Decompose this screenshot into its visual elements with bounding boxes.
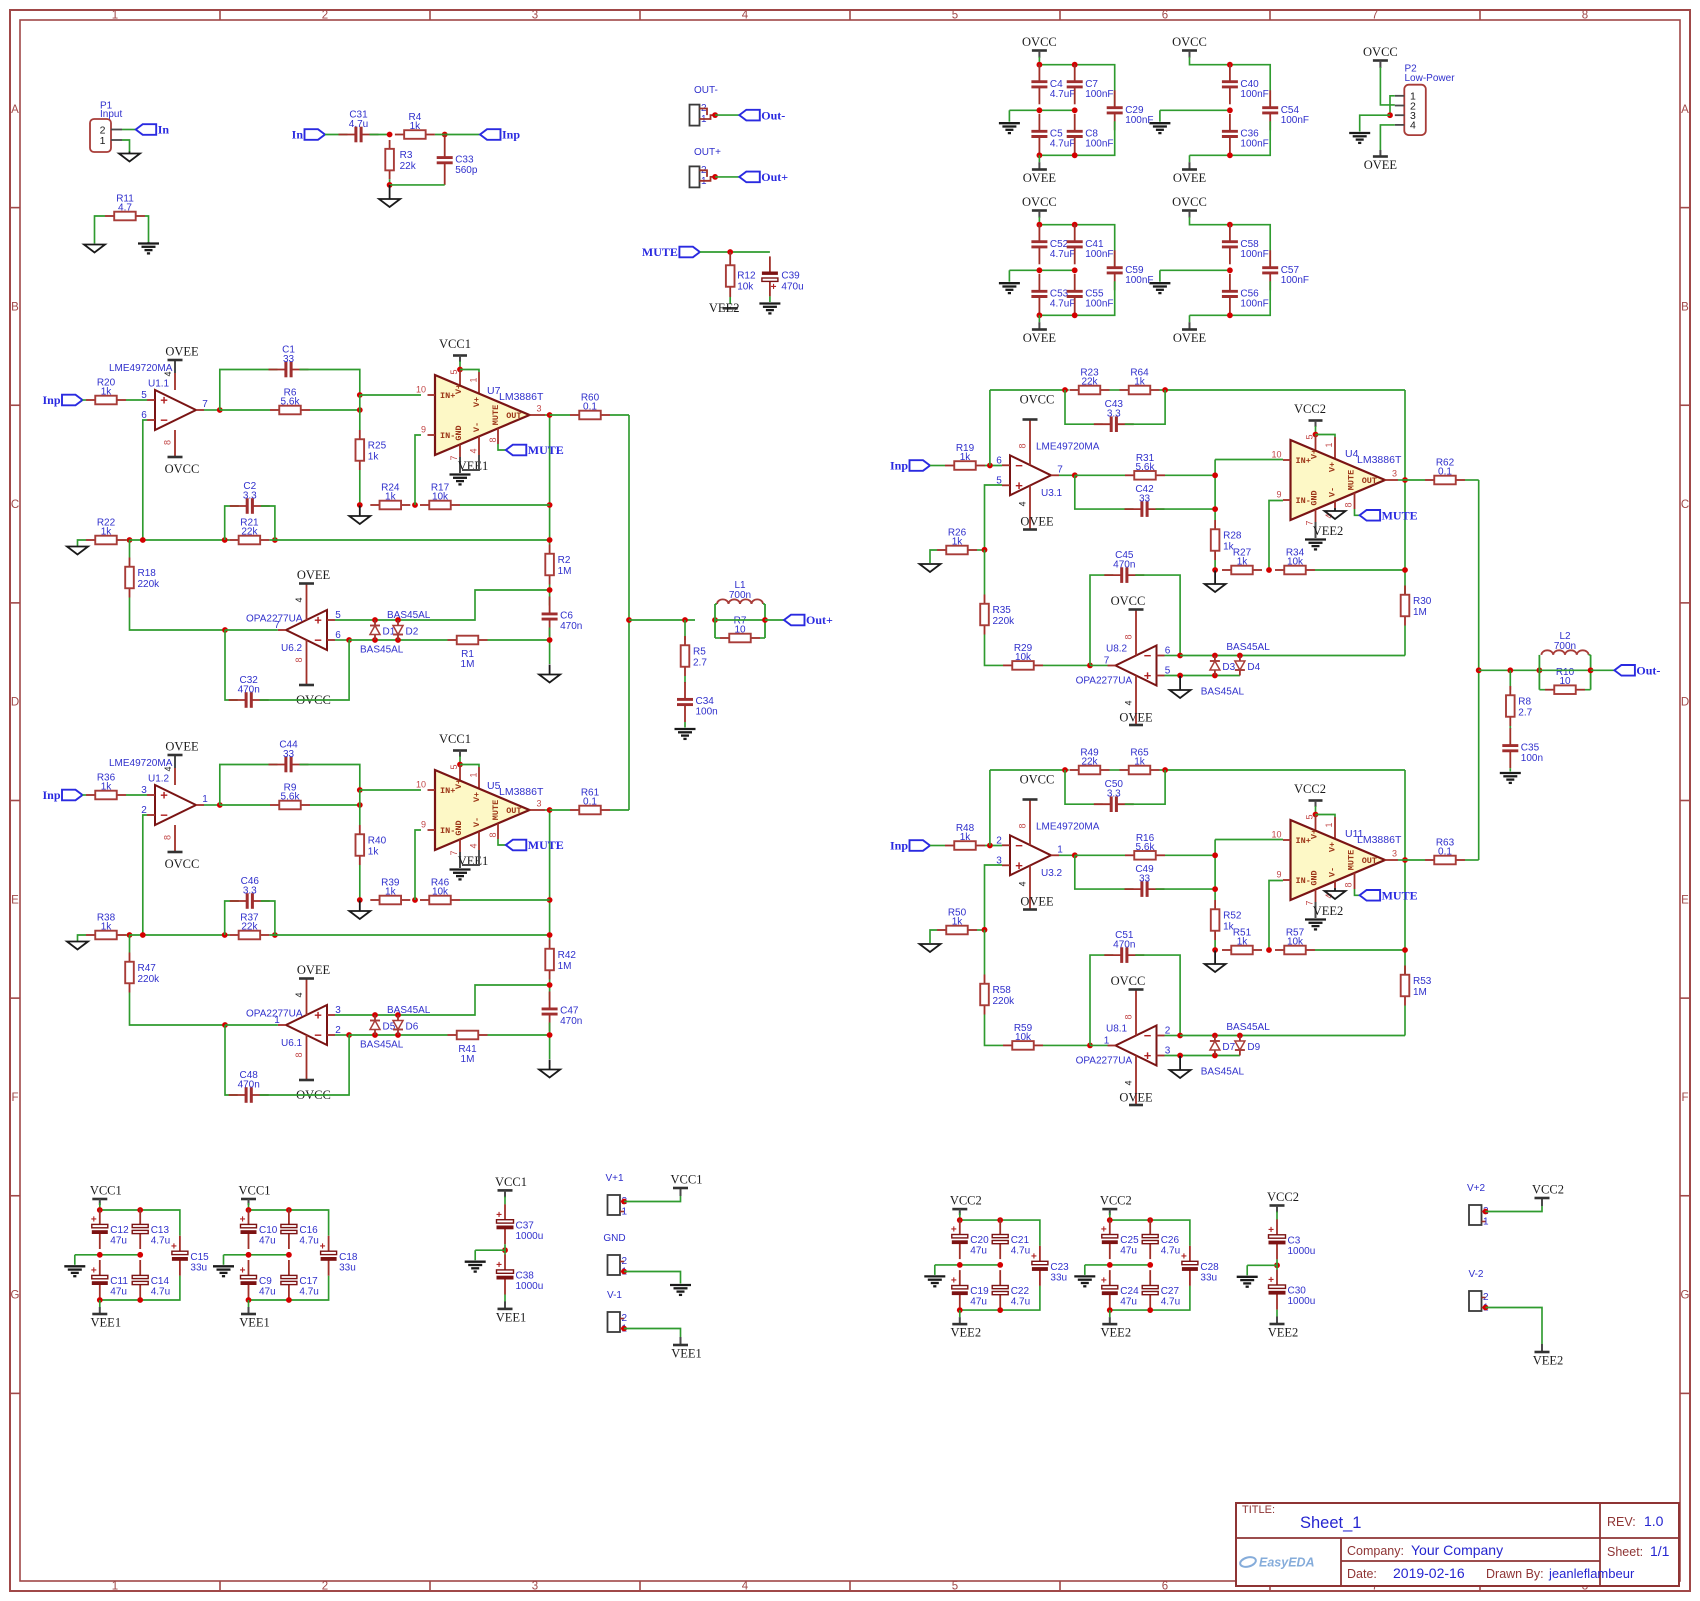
wire <box>1585 689 1591 691</box>
wire stem to C37 <box>504 1196 506 1204</box>
svg-text:OVCC: OVCC <box>165 462 200 476</box>
wire mid to earth <box>475 1249 505 1251</box>
svg-text:5: 5 <box>952 10 958 22</box>
wire C45 down <box>1135 575 1180 655</box>
svg-text:C19: C19 <box>970 1286 989 1297</box>
capacitor C40 <box>1222 64 1269 104</box>
capacitor C37 <box>496 1204 543 1244</box>
wire <box>474 1250 476 1260</box>
node VCC1/V+ <box>457 367 463 373</box>
wire V+2 to VCC2 <box>1486 1205 1543 1212</box>
wire servo + row <box>335 1014 460 1016</box>
svg-text:1k: 1k <box>385 887 397 898</box>
node bus/C2 left <box>222 537 228 543</box>
svg-text:BAS45AL: BAS45AL <box>1201 1067 1245 1078</box>
wire bank bottom rail <box>1190 281 1271 315</box>
power stem <box>1315 801 1317 808</box>
svg-text:10k: 10k <box>432 492 449 503</box>
capacitor C38 <box>496 1255 543 1295</box>
port Inp (U3.1) <box>890 459 930 473</box>
connector V-1 <box>607 1290 628 1335</box>
wire pin1 to VCC2 <box>1316 815 1336 818</box>
capacitor C26 <box>1142 1219 1180 1259</box>
svg-text:OVCC: OVCC <box>1022 195 1057 209</box>
power stem <box>1189 162 1191 169</box>
node mid mid <box>137 1252 143 1258</box>
svg-text:10k: 10k <box>1015 652 1032 663</box>
wire to C44 <box>220 765 278 806</box>
resistor R27 <box>1222 548 1262 575</box>
wire mid to earth <box>1084 1265 1086 1275</box>
resistor R57 <box>1275 928 1315 955</box>
svg-text:R5: R5 <box>693 647 706 658</box>
svg-text:2: 2 <box>322 1581 328 1593</box>
op-amp U3.2 <box>996 835 1063 879</box>
node mid left <box>246 1252 252 1258</box>
wire LM IN- down <box>1269 881 1283 951</box>
svg-text:Out+: Out+ <box>761 170 788 184</box>
svg-text:22k: 22k <box>400 161 417 172</box>
wire out to R9 <box>220 804 270 806</box>
capacitor C39 <box>762 256 804 296</box>
power flag VCC2 (bank) <box>1100 1194 1132 1210</box>
pin 4 elbow <box>462 850 479 865</box>
svg-text:OVEE: OVEE <box>165 740 199 754</box>
wire out <box>1398 859 1405 861</box>
resistor R29 <box>1003 643 1043 670</box>
power flag OVCC (U3.1) <box>1023 418 1038 421</box>
resistor R62 <box>1425 458 1465 485</box>
svg-text:V-: V- <box>1328 487 1338 497</box>
wire servo - stub <box>1165 655 1181 657</box>
svg-text:F: F <box>11 1092 18 1104</box>
svg-text:220k: 220k <box>138 974 161 985</box>
node C43 left <box>1062 387 1068 393</box>
svg-text:R58: R58 <box>993 985 1012 996</box>
svg-text:3.3: 3.3 <box>1107 789 1121 800</box>
wire R9 to node <box>310 804 360 806</box>
svg-text:470n: 470n <box>238 685 260 696</box>
svg-text:8: 8 <box>1018 443 1028 448</box>
capacitor C1 <box>269 345 309 378</box>
svg-text:In: In <box>292 128 304 142</box>
node top left <box>97 1207 103 1213</box>
wire right output bus <box>1478 480 1480 860</box>
wire + input down <box>985 865 1003 930</box>
resistor R10 <box>1545 667 1585 694</box>
node bank bottom <box>1227 312 1233 318</box>
svg-text:U1.2: U1.2 <box>148 774 170 785</box>
wire bank top rail <box>100 1210 180 1236</box>
capacitor C27 <box>1142 1270 1180 1310</box>
svg-text:GND: GND <box>454 425 464 440</box>
wire to Out- flag <box>1591 669 1615 671</box>
node bus/C46 left <box>222 932 228 938</box>
wire C31 to node <box>370 134 390 136</box>
capacitor C11 <box>91 1260 128 1300</box>
node D3 top <box>1212 653 1218 659</box>
svg-text:MUTE: MUTE <box>491 405 501 425</box>
svg-text:100nF: 100nF <box>1240 249 1268 260</box>
wire VCC2 stem <box>1315 806 1317 815</box>
svg-text:+: + <box>1015 478 1023 493</box>
svg-text:5: 5 <box>1305 434 1315 439</box>
wire to servo out <box>225 629 278 631</box>
svg-text:Drawn By:: Drawn By: <box>1486 1567 1544 1581</box>
svg-text:33u: 33u <box>1050 1272 1067 1283</box>
svg-text:22k: 22k <box>241 922 258 933</box>
pin 1 riser (U5) <box>478 767 480 789</box>
svg-text:1: 1 <box>469 772 479 777</box>
node bus/R34 <box>1402 567 1408 573</box>
wire to Out+ flag <box>765 619 784 621</box>
svg-text:V-: V- <box>472 817 482 827</box>
svg-text:8: 8 <box>488 832 498 837</box>
node bank mid <box>1227 267 1233 273</box>
wire bank top rail <box>1190 57 1271 109</box>
wire to LM IN+ <box>360 394 421 396</box>
power flag OVEE (U1.1) <box>165 345 199 361</box>
wire C32 to servo - <box>260 640 349 700</box>
node op-amp out <box>1072 472 1078 478</box>
svg-text:V+: V+ <box>1328 842 1338 852</box>
svg-text:D: D <box>11 697 19 709</box>
node R2/C6 <box>547 587 553 593</box>
wire bank top rail <box>1039 225 1114 269</box>
svg-text:LM3886T: LM3886T <box>1357 454 1402 466</box>
power flag OVCC (bank) <box>1172 35 1207 51</box>
svg-text:4: 4 <box>294 992 304 997</box>
pin 8 stem (U1.1) <box>174 430 176 456</box>
wire bank bottom rail <box>1190 121 1271 155</box>
wire left output bus <box>628 415 630 810</box>
resistor R28 <box>1211 520 1242 560</box>
svg-text:R25: R25 <box>368 441 387 452</box>
svg-text:+: + <box>1101 1225 1107 1236</box>
wire R48 to op-amp <box>985 845 1002 847</box>
svg-text:VCC2: VCC2 <box>1100 1194 1132 1208</box>
svg-text:U3.1: U3.1 <box>1041 488 1063 499</box>
svg-text:100nF: 100nF <box>1240 138 1268 149</box>
svg-text:C34: C34 <box>696 696 715 707</box>
wire R28 to row <box>1214 560 1216 570</box>
node bus/op-amp <box>140 932 146 938</box>
svg-text:R28: R28 <box>1223 531 1242 542</box>
node IN+ feed <box>357 787 363 793</box>
ground at R11 left <box>84 245 105 253</box>
node V-2 pin1 <box>1483 1305 1489 1311</box>
capacitor C21 <box>992 1219 1030 1259</box>
svg-text:1k: 1k <box>952 917 964 928</box>
resistor R19 <box>945 443 985 470</box>
wire L1/R7 right leg <box>764 604 766 638</box>
svg-text:7: 7 <box>274 620 280 631</box>
svg-text:4.7uF: 4.7uF <box>1050 89 1076 100</box>
svg-text:8: 8 <box>1344 882 1354 887</box>
svg-text:A: A <box>11 104 19 116</box>
earth ground at P2 <box>1349 133 1370 143</box>
svg-text:+: + <box>91 1266 97 1277</box>
svg-text:10k: 10k <box>737 282 754 293</box>
capacitor C41 <box>1067 224 1114 264</box>
wire out to R62 <box>1405 479 1425 481</box>
wire bank mid rail <box>1085 1264 1150 1266</box>
svg-text:V+: V+ <box>1310 829 1320 839</box>
node bank mid left <box>1037 267 1043 273</box>
svg-text:OVEE: OVEE <box>1173 171 1207 185</box>
svg-text:1M: 1M <box>558 961 572 972</box>
svg-text:C26: C26 <box>1161 1235 1180 1246</box>
svg-text:Inp: Inp <box>890 459 908 473</box>
pin 5 stub (U4) <box>1315 435 1317 452</box>
node NFB/R46 <box>547 897 553 903</box>
svg-text:C35: C35 <box>1521 742 1540 753</box>
resistor R41 <box>448 1031 488 1065</box>
power flag VCC1 (C37) <box>495 1175 527 1191</box>
wire <box>1090 664 1108 666</box>
svg-text:Your Company: Your Company <box>1411 1542 1503 1558</box>
wire stem <box>99 1300 101 1307</box>
op-amp U6.1 <box>274 1005 341 1049</box>
wire bank mid rail <box>935 1264 1000 1266</box>
svg-text:C13: C13 <box>151 1225 170 1236</box>
node LM out <box>547 412 553 418</box>
port Inp (U1.1) <box>42 393 82 407</box>
ground at servo + <box>1170 1056 1191 1078</box>
wire IN+ column <box>1214 840 1216 901</box>
node D3 bot <box>1212 673 1218 679</box>
svg-text:U3.2: U3.2 <box>1041 868 1063 879</box>
svg-text:8: 8 <box>163 835 173 840</box>
svg-text:47u: 47u <box>970 1297 987 1308</box>
ground at C6 <box>539 665 560 683</box>
svg-text:+: + <box>91 1215 97 1226</box>
power stem <box>959 1209 961 1215</box>
wire stem <box>248 1300 250 1307</box>
pin 1 riser (U7) <box>478 372 480 394</box>
wire Out- through <box>1539 669 1590 671</box>
svg-text:C12: C12 <box>110 1225 129 1236</box>
svg-text:1k: 1k <box>368 452 380 463</box>
resistor R64 <box>1120 368 1160 395</box>
power flag OVEE (U6.2) <box>297 568 331 584</box>
node servo out <box>1087 663 1093 669</box>
capacitor C13 <box>132 1209 170 1249</box>
power stem <box>1276 1206 1278 1213</box>
capacitor C22 <box>992 1270 1030 1310</box>
wire <box>1589 654 1591 656</box>
power stem <box>459 751 461 758</box>
node LM out <box>1402 857 1408 863</box>
svg-text:MUTE: MUTE <box>1382 509 1418 523</box>
svg-text:3.3: 3.3 <box>243 886 257 897</box>
node col/C49 <box>1212 886 1218 892</box>
node D2 bot <box>395 637 401 643</box>
resistor R23 <box>1070 368 1110 395</box>
power flag VEE1 (bank) <box>239 1314 270 1330</box>
svg-text:GND: GND <box>454 820 464 835</box>
resistor R38 <box>86 913 126 940</box>
wire inverting input to bus <box>143 815 147 935</box>
wire out to R63 <box>1405 859 1425 861</box>
svg-text:GND: GND <box>603 1233 625 1244</box>
svg-text:22k: 22k <box>1081 377 1098 388</box>
wire out to R60 <box>550 414 570 416</box>
svg-text:+: + <box>1268 1275 1274 1286</box>
resistor R65 <box>1120 748 1160 775</box>
wire bank mid rail <box>75 1254 140 1256</box>
port In (input RC) <box>292 128 325 142</box>
wire R3 to ground node <box>389 179 391 185</box>
svg-text:1: 1 <box>100 135 106 147</box>
resistor R21 <box>229 518 269 545</box>
power flag OVEE (U6.1) <box>297 963 331 979</box>
svg-text:MUTE: MUTE <box>491 800 501 820</box>
svg-text:100nF: 100nF <box>1281 115 1309 126</box>
pin 4 stem (U1.1) <box>174 360 176 373</box>
svg-text:C: C <box>1681 499 1689 511</box>
capacitor C53 <box>1031 274 1075 314</box>
op-amp U8.1 <box>1104 1024 1171 1066</box>
node D5 bot <box>372 1032 378 1038</box>
capacitor C51 <box>1104 930 1144 963</box>
wire mid to earth <box>1247 1264 1277 1266</box>
svg-text:C11: C11 <box>110 1276 128 1287</box>
svg-text:+: + <box>1015 858 1023 873</box>
wire V+1 to VCC1 <box>624 1195 681 1202</box>
node top mid <box>997 1217 1003 1223</box>
power flag VCC2 (bank) <box>950 1194 982 1210</box>
svg-text:4.7u: 4.7u <box>349 119 368 130</box>
svg-text:4.7u: 4.7u <box>1011 1246 1030 1257</box>
svg-text:6: 6 <box>996 455 1002 466</box>
resistor R9 <box>270 783 310 810</box>
node bus/C2 right <box>272 537 278 543</box>
svg-text:V-: V- <box>472 422 482 432</box>
wire R58 to R59 <box>985 1015 1004 1046</box>
capacitor C35 <box>1502 728 1543 768</box>
wire R29 to servo out <box>1043 664 1090 666</box>
resistor R22 <box>86 518 126 545</box>
capacitor C59 <box>1107 250 1154 290</box>
node D6 bot <box>395 1032 401 1038</box>
svg-text:V+: V+ <box>454 779 464 789</box>
resistor R34 <box>1275 548 1315 575</box>
svg-text:A: A <box>1681 104 1689 116</box>
svg-text:+: + <box>160 788 168 803</box>
earth ground at R11 right <box>138 242 159 253</box>
wire C46 to bus <box>261 901 275 935</box>
svg-text:VEE2: VEE2 <box>1313 904 1344 918</box>
node op-amp out <box>217 802 223 808</box>
resistor R63 <box>1425 838 1465 865</box>
svg-text:GND: GND <box>1310 870 1320 885</box>
power stem <box>1541 1344 1543 1352</box>
wire bus <box>130 539 230 541</box>
wire R16 to node <box>1165 854 1215 856</box>
pin 1 riser (U11) <box>1334 817 1336 839</box>
diode D1 <box>370 620 396 640</box>
svg-text:10k: 10k <box>432 887 449 898</box>
power stem <box>1109 1317 1111 1324</box>
resistor R61 <box>570 788 610 815</box>
svg-text:1k: 1k <box>101 782 113 793</box>
svg-text:R18: R18 <box>138 568 157 579</box>
svg-text:47u: 47u <box>1120 1246 1137 1257</box>
ground at R22 <box>67 547 88 555</box>
wire R57 to bus <box>1315 949 1405 951</box>
svg-text:1k: 1k <box>101 387 113 398</box>
wire node link <box>359 395 361 410</box>
svg-text:C27: C27 <box>1161 1286 1180 1297</box>
node R4/C33/Inp <box>442 132 448 138</box>
wire C42 to col <box>1156 508 1216 510</box>
node bus/Out+ <box>626 617 632 623</box>
pin 8 stub (U7) <box>497 429 499 445</box>
wire to servo out <box>225 1024 278 1026</box>
wire to C45 <box>1090 575 1113 665</box>
wire <box>977 929 985 931</box>
node GND pin1 <box>621 1269 627 1275</box>
capacitor C5 <box>1031 114 1075 154</box>
ground at P1 <box>119 152 140 162</box>
svg-text:R47: R47 <box>138 963 157 974</box>
wire R47 to servo <box>130 993 226 1026</box>
node D4 top <box>1237 653 1243 659</box>
wire servo - <box>335 1034 349 1036</box>
svg-text:5: 5 <box>952 1581 958 1593</box>
svg-text:5: 5 <box>1305 814 1315 819</box>
svg-text:1: 1 <box>202 794 208 805</box>
wire R2 to C6 <box>549 585 551 606</box>
wire L2/R10 left leg <box>1538 655 1540 690</box>
power flag OVEE (bank) <box>1173 170 1207 186</box>
svg-text:470n: 470n <box>238 1080 260 1091</box>
pin 4 stem (U8.1) <box>1135 1056 1137 1106</box>
pin 3 stub (U7) <box>530 414 546 416</box>
wire stem to C3 <box>1276 1212 1278 1220</box>
svg-text:R40: R40 <box>368 836 387 847</box>
power flag OVCC (U1.2) <box>165 852 200 871</box>
node servo out/C48 <box>222 1022 228 1028</box>
svg-text:OVEE: OVEE <box>1020 895 1054 909</box>
node bottom left <box>246 1297 252 1303</box>
wire to R58 <box>984 930 986 975</box>
node input/feedback <box>987 463 993 469</box>
op-amp U3.1 <box>996 455 1063 499</box>
wire VCC1 stem <box>459 361 461 370</box>
svg-text:2.7: 2.7 <box>1518 708 1532 719</box>
earth ground at C39 <box>759 304 780 314</box>
power flag OVCC (U6.2) <box>296 685 331 707</box>
node col/R31 <box>1212 472 1218 478</box>
svg-text:+: + <box>314 613 322 628</box>
svg-text:Inp: Inp <box>42 393 60 407</box>
power stem <box>248 1307 250 1314</box>
node C32 riser <box>346 637 352 643</box>
resistor R5 <box>681 636 708 676</box>
svg-text:R12: R12 <box>737 271 756 282</box>
wire servo - row <box>349 639 447 641</box>
svg-text:VCC2: VCC2 <box>1294 782 1326 796</box>
svg-text:+: + <box>1144 1048 1152 1063</box>
svg-text:1k: 1k <box>1237 937 1249 948</box>
pin 7 stem (U5) <box>459 840 461 853</box>
svg-text:1k: 1k <box>1237 557 1249 568</box>
inductor L2 <box>1541 631 1588 655</box>
svg-text:5: 5 <box>141 390 147 401</box>
node R51/R57 <box>1266 947 1272 953</box>
